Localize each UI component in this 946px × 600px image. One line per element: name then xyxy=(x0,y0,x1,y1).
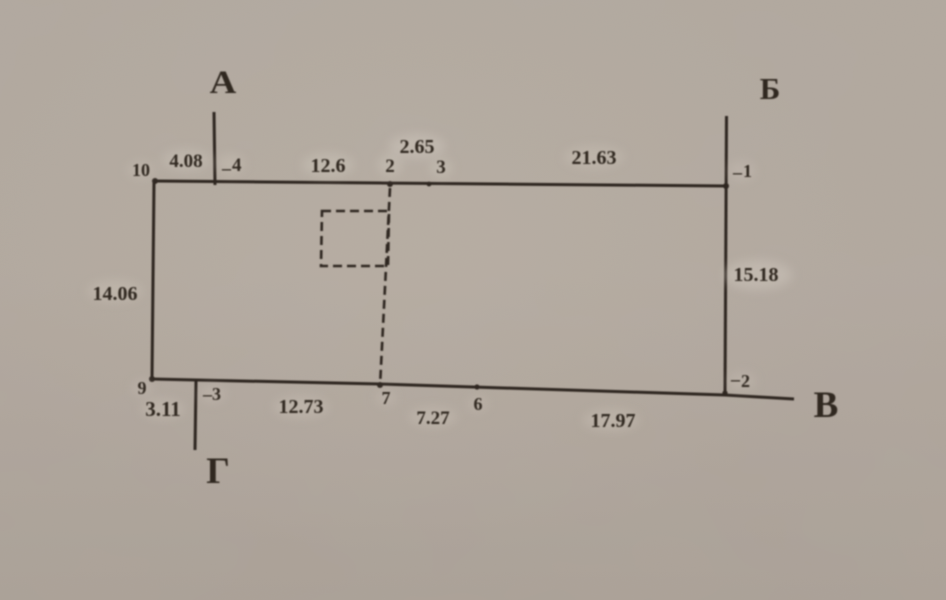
svg-text:1: 1 xyxy=(743,161,752,181)
svg-text:6: 6 xyxy=(474,394,483,414)
wire left boundary 10-9 xyxy=(152,181,154,379)
svg-text:–: – xyxy=(221,158,232,178)
svg-text:–: – xyxy=(732,162,743,182)
svg-text:9: 9 xyxy=(138,378,147,398)
wire tick G at point 3 xyxy=(195,381,196,450)
svg-text:15.18: 15.18 xyxy=(734,264,779,286)
wire tick A at point 4 xyxy=(214,112,215,185)
svg-text:4.08: 4.08 xyxy=(169,151,202,172)
node 2 bottom xyxy=(722,390,727,395)
svg-text:21.63: 21.63 xyxy=(572,147,617,169)
node 6 xyxy=(474,384,479,389)
node 3 top xyxy=(427,182,432,187)
node 7 xyxy=(377,382,383,388)
svg-text:3: 3 xyxy=(436,157,446,178)
svg-text:3.11: 3.11 xyxy=(145,397,181,421)
svg-text:Г: Г xyxy=(206,451,230,492)
wire bottom boundary 9-7-6-2-V xyxy=(152,379,794,399)
node 2 top xyxy=(387,181,393,187)
svg-text:Б: Б xyxy=(760,71,781,106)
node 9 xyxy=(149,376,155,382)
svg-text:В: В xyxy=(814,385,839,426)
paper white-out patches behind labels xyxy=(87,134,792,431)
svg-text:10: 10 xyxy=(132,160,150,180)
svg-text:12.73: 12.73 xyxy=(279,396,324,418)
svg-text:17.97: 17.97 xyxy=(591,410,636,432)
wire right boundary B-1-2 xyxy=(725,116,727,395)
wire top boundary 10-4-2-3-1 xyxy=(154,181,726,186)
wire dashed line 2-7 xyxy=(380,188,390,386)
svg-text:2.65: 2.65 xyxy=(400,136,435,158)
svg-text:2: 2 xyxy=(741,371,750,391)
svg-text:14.06: 14.06 xyxy=(93,283,138,305)
svg-text:12.6: 12.6 xyxy=(311,155,346,177)
svg-text:7.27: 7.27 xyxy=(416,408,450,429)
svg-text:4: 4 xyxy=(232,155,242,176)
svg-text:–: – xyxy=(730,369,741,389)
building dashed square xyxy=(321,211,389,266)
node 10 xyxy=(152,178,158,184)
svg-text:7: 7 xyxy=(382,388,391,408)
svg-text:А: А xyxy=(210,64,237,101)
svg-text:2: 2 xyxy=(385,156,395,177)
svg-text:3: 3 xyxy=(212,384,221,404)
node 1 xyxy=(723,183,729,189)
